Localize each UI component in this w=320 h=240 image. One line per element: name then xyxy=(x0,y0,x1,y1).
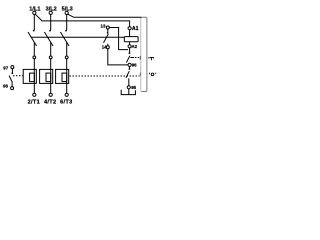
contact 95-96 upper fixed xyxy=(129,52,131,54)
terminal 2/T1 xyxy=(33,93,36,96)
test-off button box right edge xyxy=(141,17,147,91)
terminal 4/T2 xyxy=(49,93,52,96)
contact 97-98 blade xyxy=(9,76,12,82)
terminal 96 xyxy=(128,63,131,66)
terminal 5/L3 xyxy=(65,11,68,14)
wire blade to 95 xyxy=(128,78,130,85)
terminal 13 xyxy=(106,26,109,29)
terminal 14 xyxy=(106,46,109,49)
svg-text:4/T2: 4/T2 xyxy=(44,100,56,106)
overload relay F1 box pole2 xyxy=(40,69,53,83)
wire coil to A2 xyxy=(129,42,131,45)
svg-text:97: 97 xyxy=(3,65,8,70)
svg-text:95: 95 xyxy=(131,85,136,90)
contact K1 pole1 blade xyxy=(28,32,37,46)
overload relay F1 box pole1 xyxy=(23,69,36,83)
contact K1 aux blade xyxy=(104,34,109,43)
test linkage end bar xyxy=(139,56,141,60)
contact K1 pole2 blade xyxy=(44,32,53,46)
node pole3 mid terminal xyxy=(65,56,68,59)
overload relay F1 box pole3 xyxy=(56,69,69,83)
wire aux lower xyxy=(107,44,109,46)
wire 14 to 96 xyxy=(108,49,128,65)
contact K1 pole2 fixed wire xyxy=(50,15,52,31)
svg-text:A2: A2 xyxy=(132,44,138,49)
contact K1 pole3 fixed wire xyxy=(66,15,68,31)
label T xyxy=(149,57,154,60)
svg-text:A1: A1 xyxy=(132,26,139,32)
svg-text:98: 98 xyxy=(3,84,8,89)
wire 95 down xyxy=(128,89,130,95)
contact K1 pole3 blade xyxy=(60,32,69,46)
terminal 98 xyxy=(11,87,14,90)
wire pole3 lower xyxy=(66,43,68,72)
heater F3 xyxy=(66,72,68,93)
reset stirrup xyxy=(121,90,135,95)
svg-text:96: 96 xyxy=(132,63,137,68)
contact 97-98 fixed xyxy=(11,69,13,73)
contact 95 blade xyxy=(126,71,129,78)
terminal 3/L2 xyxy=(49,11,52,14)
test linkage dashes xyxy=(135,57,140,59)
coil K1 xyxy=(124,37,138,42)
trip linkage dashed line left xyxy=(13,75,23,77)
wire A1 to coil xyxy=(129,30,131,37)
terminal 1/L1 xyxy=(33,11,36,14)
wire A2 down xyxy=(129,48,131,53)
terminal A2 xyxy=(128,45,131,48)
node pole1 mid terminal xyxy=(33,56,36,59)
terminal 97 xyxy=(11,66,14,69)
svg-text:13: 13 xyxy=(101,24,106,29)
wire L3 tap to test box top xyxy=(68,14,142,17)
label O xyxy=(149,73,156,76)
contact 96 lower fixed xyxy=(129,67,131,69)
wire blade to 98 xyxy=(11,81,13,87)
svg-text:14: 14 xyxy=(102,45,107,50)
wire 13 to A2 node xyxy=(109,28,128,50)
wire pole1 lower xyxy=(33,43,35,72)
wire L1 tap to coil A1 xyxy=(35,14,129,26)
trip linkage dashed line right xyxy=(70,75,140,77)
node pole2 mid terminal xyxy=(49,56,52,59)
trip linkage end bar xyxy=(139,73,141,76)
wire pole2 lower xyxy=(50,43,52,72)
contact 95-96 upper blade xyxy=(126,56,129,63)
terminal 6/T3 xyxy=(65,93,68,96)
terminal A1 xyxy=(128,27,131,30)
terminal 95 xyxy=(127,86,130,89)
test linkage tick xyxy=(130,57,134,59)
contact K1 pole1 fixed wire xyxy=(33,15,36,31)
contact K1 aux fixed xyxy=(107,29,109,32)
heater F1 xyxy=(33,72,35,93)
heater F2 xyxy=(50,72,52,93)
test-off button box left edge xyxy=(140,18,142,91)
svg-text:2/T1: 2/T1 xyxy=(28,100,40,106)
mechanical linkage bar xyxy=(31,36,125,38)
svg-text:6/T3: 6/T3 xyxy=(60,100,72,106)
